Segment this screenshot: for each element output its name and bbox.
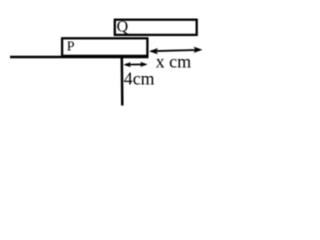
block Q <box>115 20 197 35</box>
4cm dimension arrow <box>123 62 147 68</box>
table edge vertical line <box>121 57 124 106</box>
x cm dimension arrow <box>149 47 203 55</box>
block P <box>62 38 147 56</box>
table surface line <box>10 56 149 58</box>
svg-text:Q: Q <box>117 18 129 35</box>
svg-text:4cm: 4cm <box>124 69 155 89</box>
svg-text:x cm: x cm <box>156 52 192 72</box>
svg-text:P: P <box>67 39 75 54</box>
